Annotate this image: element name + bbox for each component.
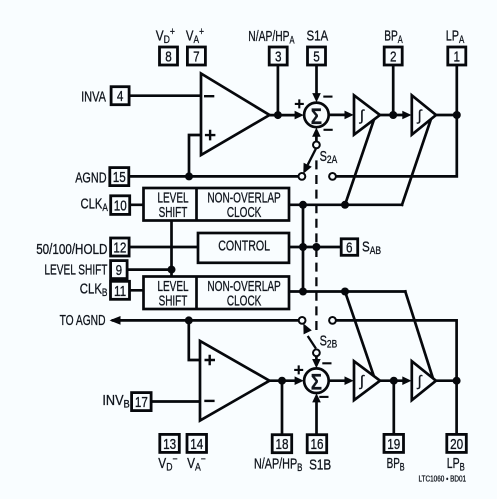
summer B plus sign <box>294 365 303 374</box>
svg-text:10: 10 <box>114 197 127 214</box>
wire LPB feedback up to switch S2B right contact <box>336 320 457 380</box>
wire AGND branch to op-amp A non-inverting input <box>189 135 201 176</box>
arrowhead summer B to integrator 1B <box>345 376 354 385</box>
svg-text:SHIFT: SHIFT <box>159 291 188 309</box>
svg-text:CLOCK: CLOCK <box>227 203 262 221</box>
pin 11 box <box>111 281 130 299</box>
wire pin 11 CLKB to level shift B <box>129 289 144 292</box>
junction node TO AGND branch <box>185 316 193 324</box>
integrator 1A <box>354 95 380 134</box>
switch S2A right contact <box>329 173 336 180</box>
wire clock B diagonal to integrator 1B <box>345 292 375 379</box>
signal labels <box>36 26 465 474</box>
svg-text:3: 3 <box>275 48 282 65</box>
switch S2A lever arrowhead <box>303 163 312 174</box>
svg-text:50/100/HOLD: 50/100/HOLD <box>36 240 107 257</box>
integrator 2A <box>412 95 436 134</box>
summer S+ A <box>304 103 329 128</box>
svg-text:15: 15 <box>113 169 126 186</box>
svg-text:S1A: S1A <box>307 27 329 44</box>
svg-text:6: 6 <box>346 239 353 256</box>
wire non-overlap clock A output line <box>289 203 402 206</box>
wire pin 10 CLKA to level shift A <box>127 203 144 206</box>
junction node clock A diagonal <box>341 201 349 209</box>
integrator 1B <box>354 361 380 400</box>
wire summer B to integrator 1B <box>329 379 347 382</box>
junction node clock B diagonal <box>341 288 349 296</box>
wire integrator 2A to node LPA <box>436 114 457 117</box>
junction node BPB <box>390 377 398 385</box>
svg-text:7: 7 <box>193 48 200 65</box>
arrowhead into summer A from op-amp A <box>295 111 304 120</box>
pin 17 box <box>132 393 152 411</box>
pin 14 box <box>187 434 207 452</box>
wire pin 5 S1A down to summer A <box>315 65 318 96</box>
op-amp U1A minus sign <box>204 95 214 97</box>
pin 18 box <box>272 435 292 453</box>
pin 7 box <box>187 47 205 65</box>
svg-text:Σ: Σ <box>311 371 322 395</box>
svg-text:19: 19 <box>387 436 400 453</box>
switch S2B right contact <box>329 317 336 324</box>
op-amp U1B plus sign <box>205 355 216 366</box>
integrator 2B <box>412 361 436 400</box>
pin 20 box <box>447 434 467 452</box>
svg-text:AGND: AGND <box>75 169 106 186</box>
pin 6 box <box>341 239 358 256</box>
block level shift B text <box>157 277 188 309</box>
summer A plus sign <box>295 99 304 108</box>
svg-text:11: 11 <box>114 282 126 299</box>
switch S2A pivot contact <box>313 142 320 149</box>
junction node at op-amp A output <box>274 111 282 119</box>
wire summer A bottom to switch S2A pivot <box>315 133 318 141</box>
pin 9 box <box>111 261 128 279</box>
arrowhead S1A into summer A top <box>312 93 321 102</box>
wire node LPB to pin 20 <box>455 381 458 435</box>
junction node BPA <box>389 111 397 119</box>
wire integrator 2B to node LPB <box>436 379 457 382</box>
pin 19 box <box>384 434 404 452</box>
pin 10 box <box>111 196 130 215</box>
switch S2B lever arrowhead <box>303 323 312 334</box>
pin 13 box <box>160 434 180 452</box>
svg-text:4: 4 <box>117 88 124 105</box>
arrowhead into integrator 2A <box>402 111 411 120</box>
arrowhead S1B into summer B bottom <box>312 393 321 402</box>
pin 4 box <box>111 87 129 105</box>
svg-text:TO AGND: TO AGND <box>60 311 106 329</box>
switch S2B left contact <box>299 317 306 324</box>
svg-text:LTC1060 • BD01: LTC1060 • BD01 <box>419 474 467 484</box>
arrowhead S2A into summer A bottom <box>312 128 321 137</box>
switch S2B lever <box>308 336 316 349</box>
arrowhead S2B into summer B top <box>312 359 321 368</box>
svg-text:12: 12 <box>113 239 126 256</box>
pin boxes <box>110 47 467 453</box>
wire link between level shift A and level shift B <box>170 220 173 276</box>
arrowhead into integrator 2B <box>402 376 411 385</box>
wire node LPA to pin 1 <box>455 65 458 115</box>
svg-text:14: 14 <box>190 436 203 453</box>
block level shift A text <box>157 188 188 220</box>
junction node clock A at bus <box>299 201 307 209</box>
svg-text:S1B: S1B <box>309 456 331 473</box>
switch S2A lever <box>308 149 316 165</box>
arrowhead into summer B from op-amp B <box>295 376 304 385</box>
wire vertical bus joining clock and control lines <box>302 205 305 292</box>
wire node op-amp B output to pin 18 <box>281 381 284 435</box>
wire node op-amp A output to pin 3 <box>277 65 280 115</box>
pin 2 box <box>384 47 402 65</box>
svg-text:16: 16 <box>310 436 323 453</box>
wire INVB to op-amp B inverting input <box>152 400 201 403</box>
op-amp U1A <box>201 74 270 156</box>
wire pin 9 level shift input <box>127 268 172 271</box>
svg-text:20: 20 <box>450 436 463 453</box>
junction node LPB <box>453 377 461 385</box>
wire node BPA to pin 2 <box>392 65 395 115</box>
junction node clock B at bus <box>299 288 307 296</box>
wire op-amp A output to summer A <box>270 114 298 117</box>
svg-text:13: 13 <box>163 436 176 453</box>
junction node at op-amp B output <box>278 377 286 385</box>
switch S2A left contact <box>299 173 306 180</box>
op-amp U1B minus sign <box>204 400 214 402</box>
svg-text:2: 2 <box>390 48 397 65</box>
arrowhead TO AGND pointing left <box>110 316 121 325</box>
wire clock B diagonal to integrator 2B <box>405 292 433 379</box>
junction node AGND branch <box>185 172 193 180</box>
wire dashed ganged-switch link S2A to S2B <box>315 160 317 330</box>
switch S2B pivot contact <box>313 349 320 356</box>
svg-text:INVA: INVA <box>81 88 106 105</box>
junction node control at dashed line <box>312 243 320 251</box>
svg-text:Σ: Σ <box>311 106 322 130</box>
junction node control at bus <box>299 243 307 251</box>
block non-overlap clock B text <box>207 277 280 309</box>
svg-text:17: 17 <box>135 394 148 411</box>
svg-text:1: 1 <box>454 48 461 65</box>
wire non-overlap clock B output line <box>289 290 405 293</box>
svg-text:CLOCK: CLOCK <box>227 291 262 309</box>
block control <box>198 233 289 263</box>
wire integrator 1B to integrator 2B <box>380 379 405 382</box>
wire AGND line to switch S2A left contact <box>129 175 299 178</box>
summer B lower minus sign <box>319 396 328 398</box>
svg-text:CONTROL: CONTROL <box>218 237 270 254</box>
wire TO AGND branch to op-amp B non-inverting input <box>189 320 200 360</box>
summer S+ B <box>304 368 329 393</box>
svg-text:18: 18 <box>275 436 288 453</box>
wire switch S2B pivot to summer B top <box>315 356 318 363</box>
pin 3 box <box>269 47 287 65</box>
wire TO AGND line to switch S2B left contact <box>113 319 299 322</box>
summer B upper minus sign <box>322 362 331 364</box>
summer A lower minus sign <box>324 129 333 131</box>
junction node level shift link <box>168 266 176 274</box>
wire integrator 1A to integrator 2A <box>380 114 405 117</box>
svg-text:SHIFT: SHIFT <box>159 203 188 221</box>
svg-text:9: 9 <box>116 262 123 279</box>
op-amp U1B <box>200 341 270 421</box>
wire INVA to op-amp A inverting input <box>129 94 201 97</box>
wire control output to pin 6 <box>289 246 341 249</box>
pin 8 box <box>160 47 178 65</box>
wire LPA feedback down to switch S2A right contact <box>336 115 457 176</box>
svg-text:N/AP/HPB: N/AP/HPB <box>254 455 302 475</box>
wire clock A diagonal to integrator 2A <box>402 118 432 205</box>
pin 16 box <box>307 435 327 453</box>
wire op-amp B output to summer B <box>270 379 298 382</box>
junction node LPA <box>453 111 461 119</box>
pin 1 box <box>448 47 466 65</box>
wire clock A diagonal to integrator 1A <box>345 118 375 205</box>
svg-text:N/AP/HPA: N/AP/HPA <box>248 27 295 46</box>
wire summer A to integrator 1A <box>329 114 347 117</box>
wire node BPB to pin 19 <box>392 381 395 435</box>
svg-text:LEVEL SHIFT: LEVEL SHIFT <box>44 261 107 279</box>
svg-text:8: 8 <box>165 48 172 65</box>
arrowhead summer A to integrator 1A <box>345 111 354 120</box>
pin 12 box <box>111 238 130 256</box>
block non-overlap clock A text <box>207 189 280 221</box>
svg-text:5: 5 <box>313 48 320 65</box>
wire pin 16 S1B up to summer B <box>315 400 318 435</box>
block level shift A and non-overlap clock A <box>144 188 290 221</box>
summer A upper minus sign <box>323 96 332 98</box>
pin 5 box <box>308 47 326 65</box>
pin 15 box <box>110 168 129 186</box>
wire pin 12 50/100/HOLD to control <box>129 246 199 249</box>
block level shift B and non-overlap clock B <box>144 277 290 310</box>
op-amp U1A plus sign <box>205 130 216 141</box>
